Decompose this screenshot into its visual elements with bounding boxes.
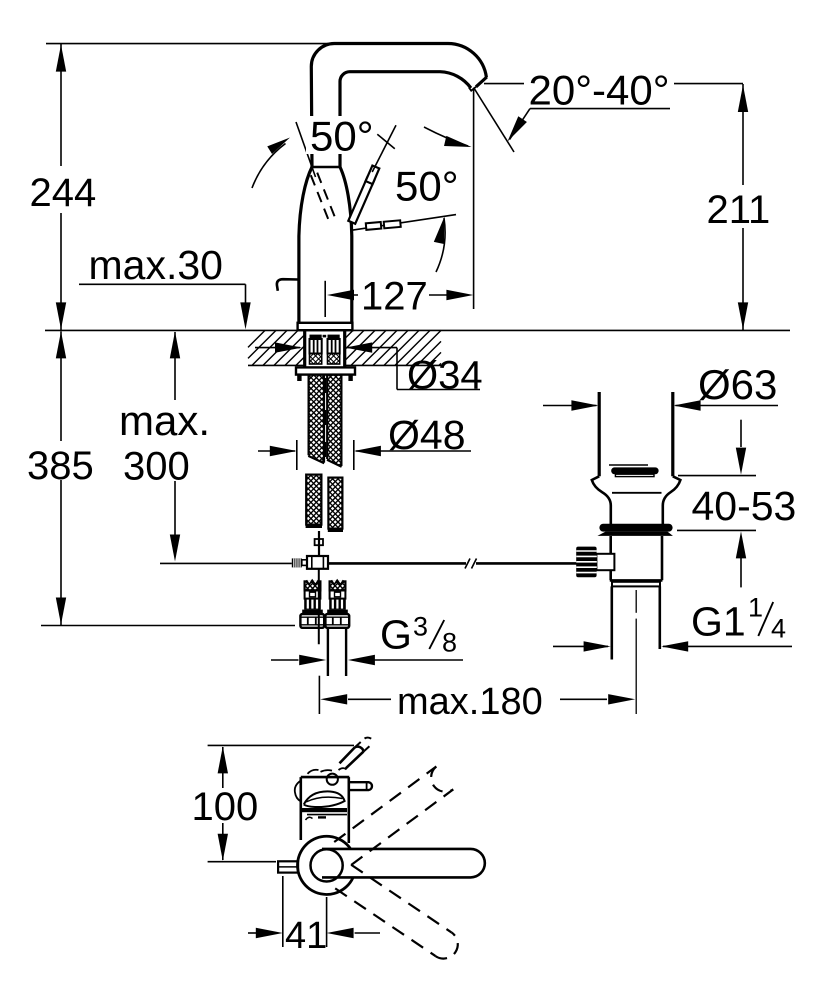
svg-text:Ø48: Ø48 (388, 412, 466, 458)
svg-text:4: 4 (771, 614, 786, 644)
svg-text:Ø34: Ø34 (407, 354, 483, 398)
svg-text:3: 3 (413, 612, 428, 642)
svg-text:40-53: 40-53 (692, 483, 797, 529)
svg-text:8: 8 (442, 628, 457, 658)
svg-text:max.30: max.30 (89, 242, 223, 288)
svg-text:211: 211 (707, 188, 771, 232)
svg-text:max.180: max.180 (397, 681, 543, 723)
svg-text:50°: 50° (395, 163, 459, 210)
svg-text:127: 127 (361, 275, 428, 319)
svg-text:385: 385 (27, 444, 94, 488)
svg-text:Ø63: Ø63 (698, 361, 777, 408)
svg-text:41: 41 (285, 915, 327, 957)
svg-text:G: G (380, 612, 412, 658)
svg-text:20°-40°: 20°-40° (529, 67, 670, 114)
svg-text:244: 244 (30, 171, 97, 215)
svg-text:max.: max. (119, 397, 210, 444)
svg-text:300: 300 (123, 445, 190, 489)
svg-text:G1: G1 (691, 599, 746, 645)
svg-text:50°: 50° (310, 113, 374, 160)
svg-text:100: 100 (192, 785, 259, 829)
svg-text:1: 1 (748, 593, 763, 623)
